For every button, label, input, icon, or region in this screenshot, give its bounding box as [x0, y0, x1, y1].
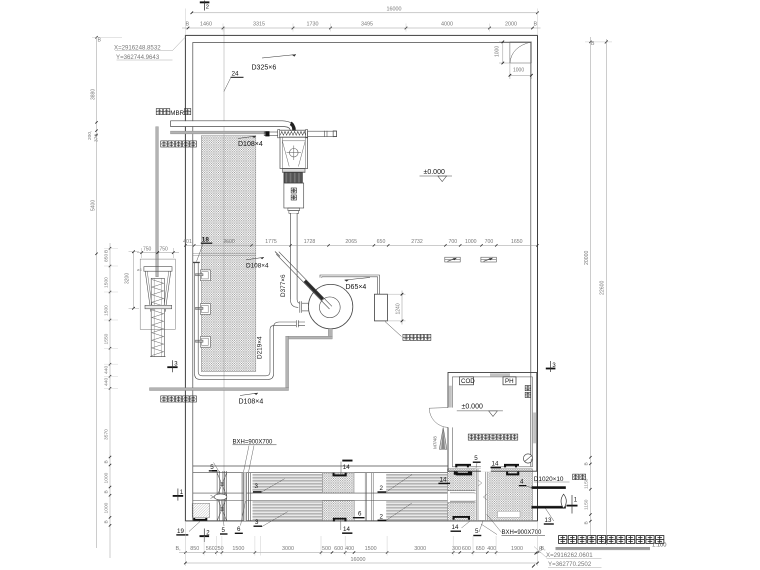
svg-text:±0.000: ±0.000	[462, 404, 483, 411]
svg-text:D65×4: D65×4	[346, 284, 367, 291]
svg-text:1000: 1000	[513, 68, 524, 74]
dim 750 750 above pump	[137, 252, 179, 254]
svg-text:1:100: 1:100	[652, 543, 667, 549]
svg-text:14: 14	[440, 476, 447, 483]
svg-text:3495: 3495	[361, 22, 373, 28]
svg-text:24: 24	[232, 71, 240, 78]
svg-text:19: 19	[177, 528, 184, 535]
svg-text:D108×4: D108×4	[238, 141, 263, 148]
svg-text:6: 6	[358, 510, 362, 517]
svg-text:3880: 3880	[91, 89, 97, 100]
channel divider lines	[193, 492, 448, 494]
svg-text:2000: 2000	[505, 22, 517, 28]
center pier crosshatch block lower	[322, 501, 354, 521]
pipe D108x4 gray to sewage well	[171, 131, 266, 134]
svg-text:3: 3	[255, 519, 259, 526]
top overall dim 16000	[192, 12, 538, 14]
gray pipe horizontal upper	[287, 336, 332, 339]
room bottom opening	[481, 466, 491, 472]
svg-text:±0.000: ±0.000	[424, 169, 445, 176]
screen machine agitator symbol	[290, 148, 299, 157]
svg-text:1730: 1730	[307, 22, 319, 28]
section symbol 2 bottom	[200, 535, 210, 537]
svg-text:1460: 1460	[200, 22, 212, 28]
screen machine motor ribbed	[284, 173, 303, 184]
label - connect to MBR tank	[156, 109, 162, 115]
white opening notch in block	[498, 511, 521, 517]
svg-text:16000: 16000	[387, 7, 402, 13]
svg-text:1000: 1000	[495, 46, 501, 57]
section symbol 2 top	[200, 1, 210, 3]
corner detail horizontal dim 1000	[510, 74, 532, 76]
svg-text:D377×6: D377×6	[280, 274, 287, 297]
svg-text:1550: 1550	[104, 333, 110, 344]
air loop right vertical	[273, 328, 275, 375]
block bracket upper-left	[454, 471, 470, 475]
svg-text:B: B	[104, 520, 110, 523]
room doorway sill marks below wall	[456, 472, 472, 476]
svg-text:1775: 1775	[265, 239, 277, 245]
room wall gray fills	[449, 386, 452, 408]
section symbol 3 right	[546, 368, 556, 370]
drawing title - grille room and regulating tank roof plan	[559, 536, 567, 544]
section symbol 1 right	[567, 505, 578, 507]
PH analyzer box	[503, 377, 516, 385]
svg-text:850: 850	[104, 254, 110, 262]
svg-text:22600: 22600	[600, 280, 606, 295]
label D325x6 with arrow	[262, 55, 296, 59]
elbow dark fill	[290, 122, 295, 131]
svg-text:16000: 16000	[351, 557, 366, 563]
svg-text:COD: COD	[461, 378, 475, 385]
svg-text:850: 850	[190, 546, 199, 552]
instrument label vertical	[525, 385, 530, 390]
svg-text:18: 18	[202, 236, 210, 243]
air loop pipe D219x4 left vertical	[194, 263, 196, 374]
screen machine inlet stub	[264, 132, 279, 136]
screen machine discharge arm	[308, 131, 337, 136]
svg-text:700: 700	[448, 239, 457, 245]
screw pump bottom cap	[150, 356, 166, 358]
svg-text:650: 650	[377, 239, 386, 245]
svg-text:ø4: ø4	[137, 267, 142, 272]
channel horizontal flow hatch upper-right	[386, 473, 447, 492]
svg-text:14: 14	[343, 526, 350, 533]
gate slot mid set	[364, 473, 366, 521]
pipe D325x6 to MBR tank	[171, 121, 283, 126]
svg-text:401: 401	[183, 239, 192, 245]
beam mark 14 bracket lower	[333, 518, 347, 522]
screen machine tank body	[280, 137, 308, 168]
grit separator outer circle	[308, 284, 352, 328]
vertical gray pipe to screw pump hopper	[156, 127, 159, 277]
svg-text:1500: 1500	[104, 305, 110, 316]
svg-text:B: B	[534, 22, 538, 28]
pipe D325 elbow down	[283, 121, 296, 131]
svg-text:D219×4: D219×4	[257, 336, 264, 359]
bottom extension lines	[203, 536, 205, 556]
section symbol 3 left	[167, 366, 177, 368]
right outer dim chain 22600	[605, 39, 607, 545]
svg-text:14: 14	[452, 524, 459, 531]
svg-text:1500: 1500	[232, 546, 244, 552]
room door leaf hatched wedge	[439, 427, 447, 449]
room doorway sill marks above wall	[455, 464, 471, 468]
svg-text:3000: 3000	[282, 546, 294, 552]
svg-text:1900: 1900	[511, 546, 523, 552]
inlet chamber crosshatch block	[448, 469, 533, 521]
monitoring room outer wall	[448, 373, 537, 472]
svg-text:13: 13	[545, 517, 552, 524]
svg-text:2600: 2600	[223, 239, 235, 245]
svg-text:400: 400	[345, 546, 354, 552]
svg-text:560: 560	[206, 546, 215, 552]
svg-text:1728: 1728	[304, 239, 316, 245]
corner chamfer detail 1000x1000	[510, 42, 532, 63]
black channel end mark	[193, 518, 207, 521]
screw conveyor column with spiral	[151, 278, 164, 356]
svg-text:B: B	[104, 460, 110, 463]
svg-text:D1020×10: D1020×10	[534, 476, 564, 483]
svg-text:D108×4: D108×4	[239, 399, 264, 406]
diagonal grit pipe D108x4	[276, 254, 329, 309]
blower dim 1240	[387, 293, 405, 295]
svg-text:250: 250	[215, 546, 224, 552]
channel horizontal flow hatch lower-left	[253, 501, 323, 520]
svg-text:1000: 1000	[104, 472, 110, 483]
svg-text:2: 2	[380, 513, 384, 520]
label - connect to sewage well (top)	[161, 141, 167, 147]
svg-text:2065: 2065	[345, 239, 357, 245]
svg-text:3315: 3315	[253, 22, 265, 28]
svg-text:M7/48: M7/48	[433, 436, 438, 449]
gate slot left set BXH=900X700	[241, 473, 243, 521]
svg-text:3570: 3570	[104, 429, 110, 440]
room door arc	[429, 408, 448, 427]
svg-text:750: 750	[143, 247, 152, 253]
svg-text:MBR: MBR	[170, 110, 184, 117]
svg-text:14: 14	[343, 464, 350, 471]
pipe sleeve oval through screen	[214, 494, 227, 500]
drop pipe elbow to blower circle	[291, 300, 300, 308]
svg-text:1240: 1240	[396, 303, 402, 314]
drop pipe D377x6	[291, 213, 297, 299]
svg-text:5: 5	[475, 528, 479, 535]
svg-text:440: 440	[104, 378, 110, 386]
svg-text:5: 5	[210, 464, 214, 471]
center pier crosshatch block upper	[322, 473, 354, 493]
label roots blower	[385, 322, 402, 337]
inlet channel hatched strip	[201, 136, 256, 372]
roof sleeve symbol 1	[445, 257, 460, 262]
air loop bottom horizontal	[200, 378, 268, 380]
dim 3200 left of pump	[133, 252, 135, 309]
svg-text:2: 2	[206, 5, 209, 11]
svg-text:X=2916262.0601: X=2916262.0601	[546, 552, 593, 559]
left inner dim chain	[109, 243, 111, 558]
svg-text:2: 2	[380, 485, 384, 492]
svg-text:4: 4	[520, 479, 524, 486]
svg-text:5400: 5400	[91, 200, 97, 211]
svg-text:1150: 1150	[584, 478, 590, 489]
gridline column B-left extension	[223, 27, 225, 521]
svg-text:20000: 20000	[584, 250, 590, 265]
tank inner wall lines	[193, 43, 531, 521]
channel horizontal flow hatch upper-left	[253, 473, 323, 492]
left hatched pier with sump 19	[192, 503, 210, 517]
top extension ticks	[222, 24, 224, 32]
beam mark 14 bracket upper	[333, 473, 347, 477]
svg-text:1000: 1000	[104, 502, 110, 513]
grit separator inner circle	[319, 297, 340, 318]
svg-text:D325×6: D325×6	[252, 65, 277, 72]
svg-text:650: 650	[476, 546, 485, 552]
gray pipe horizontal lower - to sewage well	[150, 388, 289, 391]
svg-text:B: B	[539, 547, 543, 553]
bottom overall dim 16000	[185, 562, 537, 564]
diagonal pipe dark segment	[304, 280, 324, 301]
COD analyzer box	[460, 377, 474, 385]
svg-text:750: 750	[160, 247, 169, 253]
svg-text:1500: 1500	[365, 546, 377, 552]
wall sleeve bracket 3	[200, 336, 210, 347]
tank outer wall rectangle	[185, 35, 537, 521]
middle dimension chain line	[185, 244, 537, 246]
svg-text:700: 700	[485, 239, 494, 245]
channel top wall lines	[193, 465, 448, 467]
gate slot channel through block	[476, 469, 489, 520]
svg-text:B: B	[104, 250, 110, 253]
air loop pipe cap	[193, 262, 200, 263]
svg-text:3200: 3200	[125, 273, 131, 284]
flow capsule end	[450, 493, 478, 501]
svg-text:500: 500	[322, 546, 331, 552]
svg-text:600: 600	[334, 546, 343, 552]
screen machine top trough with teeth	[279, 130, 308, 137]
gray pipe vertical	[286, 336, 289, 388]
label - connect to sewage well (bottom)	[161, 396, 167, 402]
floor drain	[523, 454, 532, 463]
svg-text:200,: 200,	[87, 131, 93, 140]
svg-text:3000: 3000	[414, 546, 426, 552]
svg-text:14: 14	[492, 460, 499, 467]
air loop bottom-right corner up	[266, 372, 274, 380]
svg-text:400: 400	[487, 546, 496, 552]
svg-text:B,: B,	[176, 546, 182, 552]
inlet pipe D1020x10	[532, 486, 566, 488]
svg-text:5: 5	[474, 455, 478, 462]
svg-text:D108×4: D108×4	[246, 263, 269, 270]
wall sleeve bracket 2	[200, 304, 210, 315]
slab edge lines across hatch strip	[193, 253, 256, 255]
svg-text:1650: 1650	[511, 239, 523, 245]
air loop bottom-left corner	[195, 372, 202, 380]
svg-text:B: B	[98, 38, 102, 44]
corner detail vertical dim 1000	[502, 42, 504, 63]
air loop top elbow to circle	[270, 322, 279, 330]
screw pump mid flange	[145, 305, 172, 309]
svg-text:370: 370	[94, 134, 100, 142]
svg-text:3: 3	[255, 483, 259, 490]
svg-text:1150: 1150	[584, 499, 590, 510]
roof sleeve symbol 2	[481, 257, 496, 262]
bottom segment dim line	[179, 552, 541, 554]
right inner dim chain 20000	[589, 37, 591, 543]
screen top black mark	[212, 470, 217, 472]
svg-text:Y=362770.2502: Y=362770.2502	[548, 561, 592, 568]
screen machine bottom flanges	[288, 208, 300, 211]
white flow channel through left of block	[448, 491, 476, 503]
svg-text:B: B	[584, 462, 590, 465]
roots blower rectangle	[375, 294, 388, 321]
screw pump hopper	[144, 267, 172, 272]
left extension lines	[104, 247, 118, 249]
svg-text:2732: 2732	[411, 239, 423, 245]
top segment dim line	[182, 27, 541, 29]
svg-text:6: 6	[237, 526, 241, 533]
svg-text:B: B	[584, 521, 590, 524]
grit outlet stub below circle	[328, 329, 332, 337]
screw pump pit outline	[140, 259, 175, 329]
coarse screen unit item 5	[216, 471, 218, 521]
svg-text:5: 5	[222, 527, 226, 534]
channel horizontal flow hatch lower-right	[386, 501, 447, 520]
room door opening	[447, 408, 453, 428]
room label - inlet online monitoring room	[468, 434, 474, 440]
wall sleeve bracket 1	[200, 270, 210, 281]
left outer dim chain	[96, 37, 98, 548]
pipe break teardrop symbol	[561, 494, 566, 508]
screen machine flange row	[283, 169, 305, 173]
svg-text:B: B	[104, 490, 110, 493]
svg-text:1000: 1000	[465, 239, 477, 245]
screen machine lower column	[284, 183, 304, 208]
section symbol 1 left-bottom	[173, 495, 184, 497]
air pipe D65x4 from blower	[320, 275, 379, 294]
svg-text:1500: 1500	[104, 277, 110, 288]
svg-text:440: 440	[104, 366, 110, 374]
svg-text:PH: PH	[505, 378, 514, 385]
svg-text:4000: 4000	[441, 22, 453, 28]
monitoring room inner wall	[452, 377, 532, 467]
block bracket lower	[453, 516, 471, 520]
svg-text:600: 600	[462, 546, 471, 552]
svg-text:B: B	[186, 22, 190, 28]
